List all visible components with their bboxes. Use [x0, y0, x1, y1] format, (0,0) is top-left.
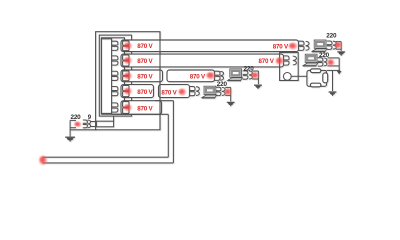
ground G1: [337, 51, 345, 53]
socket CN7: [196, 87, 199, 96]
marker blob row4 220: [224, 88, 233, 97]
connector pin male row4: [112, 87, 118, 96]
wire W1c: [340, 42, 342, 51]
wire W4b: [225, 94, 231, 96]
wire W6b: [167, 114, 169, 157]
connector pin male row2: [112, 56, 118, 65]
wire W4a: [225, 86, 231, 88]
wire W2c: [338, 58, 340, 71]
cable W4a row4: [121, 85, 154, 98]
computer PC2: [303, 54, 318, 66]
marker blob bottom node: [38, 154, 48, 166]
cable W4 end plug: [190, 87, 196, 96]
socket CN6b: [249, 71, 252, 79]
connector block X1 pin strip: [101, 39, 111, 114]
connector socket row5: [123, 102, 129, 108]
marker blob row4 block: [123, 87, 133, 96]
wire ground bus to block: [70, 129, 96, 131]
wire X2 to block: [113, 116, 115, 121]
wire W3b: [252, 78, 258, 80]
marker blob row2 220: [327, 58, 336, 67]
ground G2: [329, 91, 337, 93]
socket CN8b: [222, 87, 225, 95]
svg-text:220: 220: [319, 53, 330, 59]
svg-text:9: 9: [88, 115, 92, 121]
device U1 box: [280, 53, 299, 81]
cable W5 row5: [121, 101, 162, 115]
connector socket row3: [123, 71, 129, 76]
marker blob row3 block: [123, 71, 133, 80]
socket CN5: [220, 71, 223, 80]
terminal box X2: [96, 121, 113, 127]
svg-text:220: 220: [217, 82, 228, 88]
ground G3: [254, 84, 262, 86]
socket CN1: [306, 41, 309, 50]
connector pin male row1: [112, 41, 118, 50]
svg-text:870 V: 870 V: [190, 75, 205, 81]
marker blob row1 220: [334, 41, 343, 50]
marker blob row1 block: [123, 41, 133, 50]
wire W5b: [172, 101, 174, 163]
UPS U2 box: [307, 70, 327, 86]
connector pin male row3: [112, 71, 118, 80]
socket CN2b: [333, 41, 336, 49]
wire W3c: [257, 71, 259, 84]
marker blob row3 mid: [205, 71, 216, 80]
wire W3a: [252, 70, 258, 72]
UPS U2 battery bar: [323, 73, 328, 83]
marker blob row1 mid: [288, 42, 299, 51]
wire W2e: [332, 70, 334, 91]
wire U1 to UPS: [291, 75, 307, 77]
wire X2a: [91, 121, 96, 123]
marker blob row4 mid: [177, 88, 187, 97]
svg-text:220: 220: [71, 115, 82, 121]
marker blob row2 mid: [275, 56, 285, 66]
svg-text:220: 220: [326, 34, 337, 40]
wire W2b: [327, 65, 339, 67]
shell edge crossing outer: [159, 32, 161, 130]
wire W1b: [336, 48, 341, 50]
wire W5c: [43, 162, 174, 164]
transformer T1 winding right: [88, 120, 91, 128]
connector pin male row5: [112, 103, 118, 112]
wire T1b: [69, 120, 71, 136]
transformer T1 winding left: [83, 120, 88, 128]
cable W3a row3: [121, 70, 163, 82]
UPS U2 top terminal: [310, 69, 321, 73]
wire X2b: [91, 126, 96, 128]
svg-text:870 V: 870 V: [273, 45, 288, 51]
wire W6c: [43, 156, 169, 158]
wire W2d: [327, 69, 341, 71]
marker blob row5 block: [123, 103, 133, 112]
wire T1a2: [70, 127, 76, 129]
ground G4: [227, 101, 235, 103]
plug CN4: [318, 58, 323, 66]
marker blob row3 220: [250, 71, 260, 79]
marker blob T1: [73, 121, 82, 128]
cable W1 end plug: [299, 41, 305, 50]
ground G5: [65, 136, 75, 138]
svg-text:870 V: 870 V: [137, 44, 152, 50]
cable W1 row1: [121, 40, 299, 52]
wire W5a: [155, 100, 173, 102]
connector socket row1: [123, 41, 129, 46]
computer PC1: [312, 40, 327, 52]
plug CN8: [216, 87, 221, 95]
cable W2 row2: [121, 54, 284, 67]
wire W1a: [336, 41, 341, 43]
computer PC3: [228, 69, 243, 81]
plug CN6: [243, 71, 248, 79]
connector block X1 middle shell: [99, 35, 131, 116]
svg-text:870 V: 870 V: [137, 74, 152, 80]
cable W4b row4: [159, 85, 190, 98]
connector block X1 inner shell: [101, 38, 124, 114]
arrow A1: [337, 71, 342, 75]
socket CN4b: [324, 58, 327, 66]
cable W3 end plug: [215, 71, 221, 80]
svg-text:870 V: 870 V: [137, 106, 152, 112]
cable W3b row3: [167, 70, 215, 82]
plug CN2: [327, 41, 332, 49]
svg-text:870 V: 870 V: [161, 91, 176, 97]
connector block X1 outer shell: [96, 32, 160, 130]
device U1 meter circle: [283, 73, 291, 81]
wire W6a: [112, 113, 169, 115]
marker blob row2 block: [123, 56, 133, 65]
cable W2 end plug: [284, 56, 290, 65]
wire W2a: [327, 57, 339, 59]
socket CN3: [293, 56, 297, 65]
computer PC4: [202, 86, 217, 98]
svg-text:220: 220: [244, 66, 255, 72]
svg-text:870 V: 870 V: [137, 90, 152, 96]
svg-text:870 V: 870 V: [259, 59, 274, 65]
UPS U2 bottom terminal: [310, 83, 321, 87]
wire W4c: [230, 87, 232, 101]
wire T1a: [70, 119, 76, 121]
connector socket row2: [123, 55, 129, 60]
svg-text:870 V: 870 V: [137, 59, 152, 65]
connector socket row4: [123, 86, 129, 91]
